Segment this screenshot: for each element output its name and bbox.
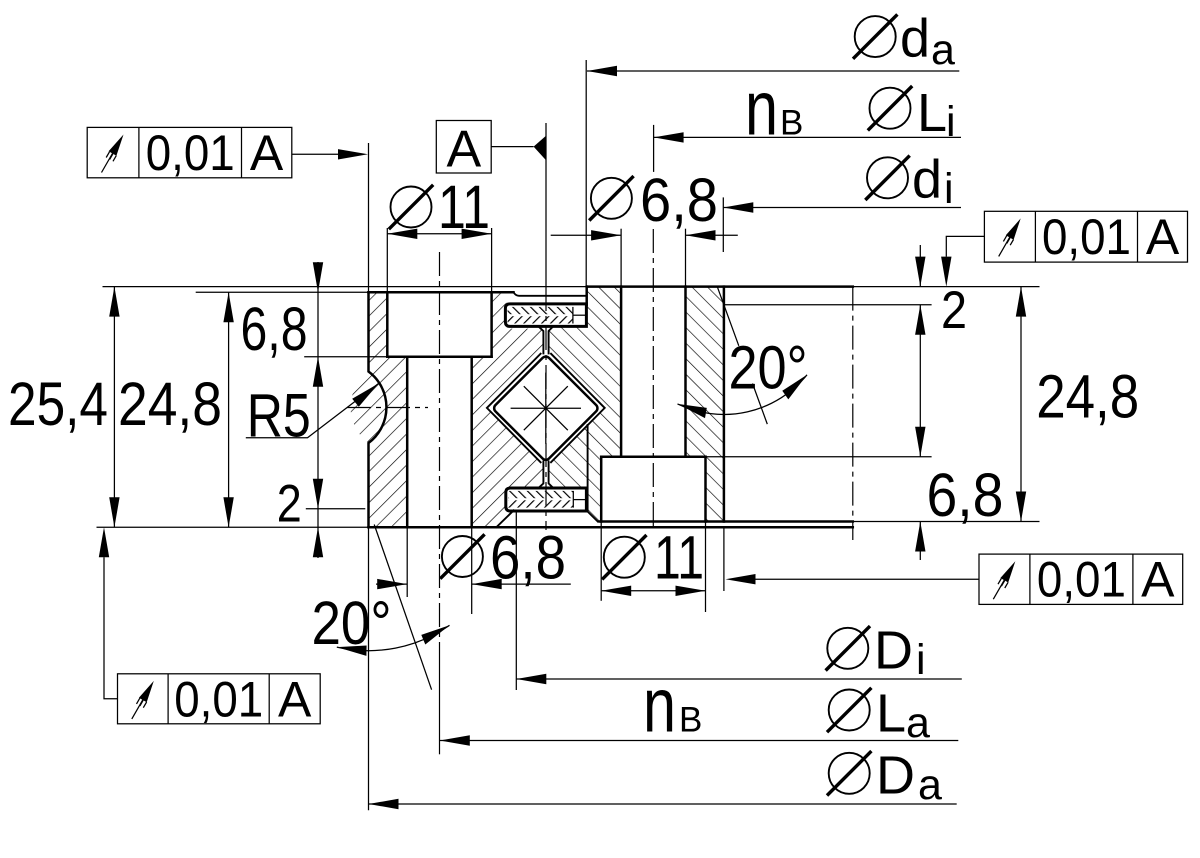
svg-text:a: a: [918, 761, 942, 809]
inner ring top face: [587, 285, 853, 288]
∅di label: [865, 149, 953, 213]
bore extension below: [723, 528, 725, 592]
bottom seal lip funnel and stem: [539, 461, 553, 487]
top seal: [505, 304, 586, 327]
2 top right extension: [724, 304, 932, 306]
nB top extension: [653, 125, 655, 172]
25,4 top extension line: [103, 286, 587, 288]
svg-text:B: B: [780, 104, 803, 143]
R5 leader: [246, 384, 379, 438]
svg-text:6,8: 6,8: [241, 295, 308, 363]
top-right frame: [946, 211, 1187, 262]
centerlines dash-dot: [347, 229, 853, 754]
svg-text:n: n: [643, 663, 676, 749]
svg-text:2: 2: [277, 475, 302, 534]
dimension lines: [114, 71, 1021, 804]
svg-text:a: a: [906, 699, 930, 747]
R5 groove center tick: [347, 407, 428, 409]
25,4 dim line: [113, 287, 115, 528]
svg-text:0,01: 0,01: [174, 671, 263, 727]
outer ring top face: [369, 291, 514, 294]
outer ring OD left edge with R5 groove: [369, 292, 387, 527]
inner ring counterbore right wall: [704, 457, 707, 522]
svg-text:11: 11: [654, 524, 704, 592]
left hole centerline: [439, 252, 441, 649]
hatched outer ring section: [351, 292, 544, 527]
up pointing: [109, 287, 119, 317]
inner ring bottom seal chamfer: [588, 512, 598, 522]
hatched inner ring section: [549, 287, 724, 522]
roller star mark: [511, 373, 581, 444]
∅11 bottom label: [602, 524, 704, 592]
2 bottom left extension: [306, 508, 366, 510]
∅6,8 bottom label: [440, 524, 566, 592]
outer ring bottom face: [369, 526, 853, 529]
svg-text:6,8: 6,8: [640, 166, 718, 234]
svg-text:d: d: [912, 149, 942, 209]
6,8 right counterbore top extension: [706, 456, 932, 458]
∅11 bottom dim line: [601, 590, 705, 592]
bottom-right frame: [756, 554, 1183, 604]
da dim line: [587, 70, 959, 72]
svg-text:i: i: [916, 636, 926, 684]
∅6,8 top label: [589, 166, 718, 234]
6,8/2 left dim line: [317, 262, 319, 558]
20° construction lines: [246, 287, 807, 689]
svg-text:B: B: [679, 701, 702, 740]
svg-text:0,01: 0,01: [1042, 209, 1131, 265]
svg-text:A: A: [446, 121, 481, 179]
svg-text:24,8: 24,8: [1036, 362, 1139, 430]
nB top label: [745, 66, 803, 152]
ring outlines: [369, 287, 853, 528]
left pointing: [587, 66, 617, 76]
Li/nB dim line: [654, 136, 961, 138]
∅Li label: [868, 83, 956, 146]
left hole centerline solid lower part: [439, 649, 441, 754]
∅Di label: [826, 621, 926, 685]
24,8 right dim line: [1020, 287, 1022, 522]
svg-text:L: L: [917, 83, 947, 143]
inner ring hole ∅6,8 left wall: [620, 287, 623, 457]
inner counterbore extensions below: [600, 522, 602, 601]
top seal lip funnel and stem: [539, 327, 553, 354]
svg-text:L: L: [876, 684, 906, 744]
svg-text:24,8: 24,8: [118, 370, 222, 438]
inner ring counterbore top face: [601, 456, 705, 459]
roller diamond: [492, 355, 599, 462]
hole ∅6,8 left wall: [406, 357, 409, 528]
svg-text:20°: 20°: [312, 589, 392, 657]
svg-text:i: i: [944, 165, 954, 213]
runout symbols: [102, 135, 124, 173]
counterbore ∅11 extensions above: [386, 228, 388, 292]
bottom extension line: [97, 526, 369, 528]
bottom-left frame: [104, 557, 320, 724]
svg-text:0,01: 0,01: [1037, 552, 1126, 608]
di extension stub: [722, 197, 724, 252]
inner ring bottom face: [600, 520, 853, 523]
Di extension: [515, 512, 517, 691]
thin extension lines: [97, 60, 1040, 810]
24,8 left top extension: [196, 291, 369, 293]
hole right ∅6,8 extensions above: [620, 229, 622, 287]
inner ring counterbore left wall: [600, 457, 603, 522]
outer OD extension above: [368, 143, 370, 292]
hole ∅6,8 extensions below: [406, 527, 408, 597]
∅Da label: [827, 746, 942, 810]
6,8 left counterbore bottom extension: [304, 356, 387, 358]
bottom seal: [506, 488, 587, 511]
svg-text:a: a: [931, 26, 955, 74]
Da dim line: [369, 803, 957, 805]
svg-text:20°: 20°: [729, 334, 808, 402]
La/nB dim line: [440, 740, 959, 742]
datum axis continuation: [545, 287, 547, 530]
outer ring bottom seal chamfer: [496, 510, 513, 527]
20° bottom inclined line: [374, 525, 431, 690]
2 top / 6,8 right dim line: [919, 245, 921, 287]
svg-text:0,01: 0,01: [146, 125, 235, 181]
counterbore ∅11 right wall: [490, 292, 493, 357]
20° bottom arc: [337, 625, 450, 650]
svg-text:25,4: 25,4: [8, 370, 108, 438]
right hole centerline: [652, 229, 654, 528]
di dim line: [723, 207, 961, 209]
svg-text:d: d: [900, 8, 930, 68]
down pointing: [109, 497, 119, 527]
svg-text:A: A: [278, 671, 312, 727]
svg-text:D: D: [876, 746, 915, 806]
datum line from A: [545, 123, 547, 287]
tolerance frames: [87, 125, 1187, 727]
svg-text:A: A: [1141, 552, 1175, 608]
∅11 top dim line: [387, 233, 491, 235]
20° top arc arrows: [678, 404, 707, 418]
svg-text:6,8: 6,8: [490, 524, 566, 592]
∅6,8 bottom dim line: [376, 583, 407, 585]
24,8 left dim line: [228, 292, 230, 527]
svg-text:i: i: [946, 98, 956, 146]
R5 leader arrow: [352, 384, 378, 407]
svg-text:11: 11: [438, 173, 490, 241]
seal recess step line top: [514, 292, 586, 296]
inner ring hole ∅6,8 right wall: [684, 287, 687, 457]
∅6,8 top dim line: [551, 234, 621, 236]
svg-text:6,8: 6,8: [927, 461, 1004, 529]
Di dim line: [516, 678, 962, 680]
inner bottom extension right: [853, 521, 1040, 523]
∅11 top label: [389, 173, 490, 241]
counterbore bottom face: [387, 355, 491, 358]
svg-text:A: A: [1146, 209, 1180, 265]
svg-text:n: n: [745, 66, 778, 152]
inner ring lower left face: [587, 425, 589, 512]
20° top arc: [678, 375, 808, 415]
outer OD extension below (Da): [368, 527, 370, 810]
arrowheads: [99, 66, 1026, 809]
right pointing: [338, 149, 368, 159]
∅da label: [853, 8, 955, 74]
hole ∅6,8 right wall: [470, 357, 473, 528]
datum A box and triangle: [436, 121, 546, 179]
counterbore ∅11 left wall: [386, 292, 389, 357]
da extension: [585, 60, 587, 287]
20° top inclined line: [718, 287, 739, 346]
raceway lines: [487, 354, 605, 463]
svg-text:A: A: [250, 125, 284, 181]
inner ring recess wall: [585, 287, 588, 305]
svg-text:2: 2: [941, 281, 967, 340]
inner ring bore edge: [723, 287, 726, 522]
∅La label: [827, 684, 930, 747]
nB bottom label: [643, 663, 702, 749]
20° bottom arc arrows: [337, 646, 367, 656]
top-left frame: [87, 127, 338, 177]
svg-text:R5: R5: [247, 382, 311, 450]
svg-text:D: D: [874, 621, 913, 681]
right flange centerline: [852, 287, 854, 540]
